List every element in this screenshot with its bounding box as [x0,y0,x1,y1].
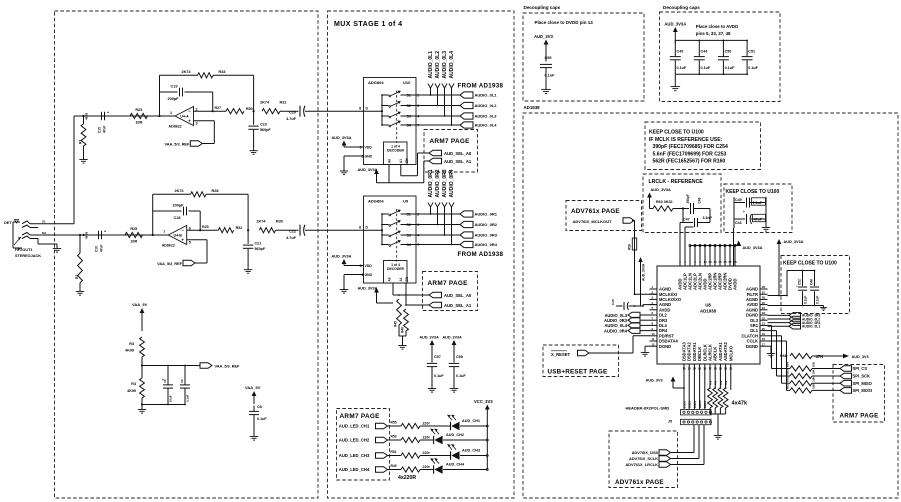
svg-text:ADV76IX_SCLK: ADV76IX_SCLK [629,456,658,461]
svg-text:SPI_MOSI: SPI_MOSI [853,388,872,393]
svg-text:37: 37 [728,260,732,264]
svg-text:ARM7 PAGE: ARM7 PAGE [428,280,469,287]
svg-text:220r: 220r [423,465,431,469]
svg-text:R49: R49 [391,464,397,468]
svg-text:DSD3: DSD3 [682,401,686,408]
svg-text:R58: R58 [628,244,632,250]
svg-text:VAA_5/3_REF: VAA_5/3_REF [215,365,241,369]
svg-text:10R: 10R [135,121,142,125]
svg-text:AUD_3V3A: AUD_3V3A [642,263,646,281]
svg-text:AUD_3V3A: AUD_3V3A [743,246,763,250]
svg-text:220r: 220r [423,422,431,426]
svg-text:pins 5, 33, 37, 48: pins 5, 33, 37, 48 [696,31,731,36]
svg-text:SPI_SCK: SPI_SCK [853,374,871,379]
svg-text:DECODER: DECODER [387,267,405,271]
svg-text:AUD_LED_CH3: AUD_LED_CH3 [339,453,370,458]
svg-text:15: 15 [698,367,702,371]
svg-text:DET: DET [4,221,12,225]
svg-text:VDD: VDD [365,264,373,268]
svg-text:20: 20 [762,327,766,331]
svg-text:18: 18 [762,337,766,341]
svg-text:0.1uF: 0.1uF [257,417,267,421]
svg-text:23: 23 [762,311,766,315]
svg-text:−: − [181,227,184,232]
svg-text:0.1uF: 0.1uF [456,374,466,378]
svg-text:C44: C44 [701,50,709,54]
svg-text:C20: C20 [289,111,296,115]
svg-text:200pF: 200pF [168,97,180,101]
svg-text:14: 14 [693,367,697,371]
svg-text:3.3nF: 3.3nF [703,216,713,220]
svg-text:R1: R1 [79,140,83,144]
svg-text:KEEP CLOSE TO U100: KEEP CLOSE TO U100 [783,261,837,267]
svg-text:AUDIO_0L4: AUDIO_0L4 [475,123,498,128]
svg-text:AUD_3V3A: AUD_3V3A [651,187,672,192]
svg-text:AUDIO_0R4: AUDIO_0R4 [475,242,498,247]
svg-text:AUD_3V3A: AUD_3V3A [420,336,440,340]
svg-text:VAA_5V: VAA_5V [132,302,148,307]
svg-text:C6: C6 [180,379,184,383]
svg-text:200pF: 200pF [173,204,185,208]
svg-text:28: 28 [762,285,766,289]
svg-text:HEADER-8X2POL-SMD: HEADER-8X2POL-SMD [626,405,670,410]
svg-text:R2: R2 [75,275,79,279]
svg-text:AUD_3V3: AUD_3V3 [534,34,554,39]
svg-text:10: 10 [703,260,707,264]
svg-text:ADG804: ADG804 [368,80,384,85]
svg-text:AUD_CH4: AUD_CH4 [446,463,465,467]
svg-text:C18: C18 [174,216,181,220]
svg-text:DGND: DGND [746,344,758,349]
svg-text:R52: R52 [236,226,243,230]
svg-text:+: + [107,111,109,115]
svg-text:SPI_MISO: SPI_MISO [853,381,873,386]
svg-text:AUDIO_0L4: AUDIO_0L4 [449,51,455,79]
svg-text:26: 26 [762,296,766,300]
svg-text:DECODER: DECODER [387,149,405,153]
svg-text:M1: M1 [42,231,46,235]
svg-text:AUDIO_0L3: AUDIO_0L3 [442,51,448,79]
svg-text:−: − [188,108,191,113]
svg-text:EN: EN [405,158,409,163]
svg-text:FROM AD1938: FROM AD1938 [458,83,504,90]
svg-text:C19: C19 [171,85,178,89]
svg-text:X_RESET: X_RESET [551,352,571,357]
svg-text:22: 22 [762,316,766,320]
svg-text:17: 17 [708,367,712,371]
svg-text:2K74: 2K74 [256,220,266,224]
svg-text:AUDIO_0R4: AUDIO_0R4 [604,328,628,333]
svg-text:2K74: 2K74 [181,70,191,74]
svg-text:AUDIO_0L3: AUDIO_0L3 [475,114,498,119]
svg-text:ADV761x PAGE: ADV761x PAGE [571,208,620,215]
svg-text:S1: S1 [407,93,411,97]
svg-text:AUD_3V3A: AUD_3V3A [358,287,378,291]
svg-text:A0: A0 [388,277,392,281]
svg-text:4x220R: 4x220R [398,475,416,481]
svg-text:R53: R53 [391,435,397,439]
svg-text:AUD_LED_CH2: AUD_LED_CH2 [339,438,370,443]
svg-text:A0: A0 [388,159,392,163]
svg-text:12: 12 [682,367,686,371]
svg-text:AUDIO_0R1: AUDIO_0R1 [475,212,498,217]
svg-text:R60 3K32: R60 3K32 [656,200,673,204]
svg-text:DGND: DGND [659,344,671,349]
svg-text:+: + [104,230,106,234]
svg-text:ARM7 PAGE: ARM7 PAGE [430,138,471,145]
svg-text:C55: C55 [545,56,552,60]
svg-text:U8: U8 [705,303,711,308]
svg-text:FROM AD1938: FROM AD1938 [458,251,504,258]
svg-text:VAA_5/3_REF: VAA_5/3_REF [157,262,183,266]
svg-text:20: 20 [724,367,728,371]
svg-text:+: + [188,118,191,123]
svg-text:Decoupling caps: Decoupling caps [524,5,561,10]
svg-text:2K74: 2K74 [174,189,184,193]
svg-text:4.7uF: 4.7uF [286,117,297,121]
svg-text:AD8622: AD8622 [162,244,175,248]
svg-text:AUD_3V3A: AUD_3V3A [443,336,463,340]
svg-text:MUX STAGE 1 of 4: MUX STAGE 1 of 4 [334,21,403,28]
svg-text:4K99: 4K99 [127,389,136,393]
svg-text:0.1uF: 0.1uF [701,66,711,70]
svg-text:DLRC: DLRC [703,401,707,408]
svg-text:C52: C52 [798,279,802,285]
svg-text:AUD_CH1: AUD_CH1 [462,419,480,423]
svg-text:33: 33 [708,260,712,264]
svg-text:VAA_5/3_REF: VAA_5/3_REF [164,142,190,146]
svg-text:ARM7 PAGE: ARM7 PAGE [340,413,381,420]
svg-text:AUD_3V3A: AUD_3V3A [664,22,686,27]
svg-text:AUDIO_0R2: AUDIO_0R2 [475,222,498,227]
svg-text:C45: C45 [611,299,615,305]
svg-text:4x47k: 4x47k [732,401,748,407]
svg-text:AUD_SEL_A1: AUD_SEL_A1 [444,303,472,308]
svg-text:4K99: 4K99 [125,349,134,353]
svg-text:R31: R31 [280,101,287,105]
svg-text:A1: A1 [399,159,403,163]
svg-text:AUDIO_0R4: AUDIO_0R4 [449,169,455,197]
svg-text:10K: 10K [812,362,816,367]
svg-text:C16: C16 [95,246,99,252]
svg-text:AUDIO_0L2: AUDIO_0L2 [475,103,498,108]
svg-text:2K74: 2K74 [260,101,270,105]
svg-text:R33: R33 [219,70,226,74]
svg-text:C21: C21 [255,242,262,246]
svg-text:47uF: 47uF [754,217,763,221]
svg-text:AUDIO_0R2: AUDIO_0R2 [435,169,441,197]
svg-text:0.1uF: 0.1uF [186,394,190,402]
svg-text:0.1uF: 0.1uF [725,66,735,70]
svg-text:35: 35 [718,260,722,264]
svg-text:U4-B: U4-B [174,233,183,237]
svg-text:ADV761x PAGE: ADV761x PAGE [615,479,664,486]
svg-text:3: 3 [196,122,198,126]
svg-text:GND: GND [365,273,373,277]
svg-text:EN: EN [405,276,409,281]
svg-text:AUDIO_0L1: AUDIO_0L1 [428,51,434,79]
svg-text:0.1uF: 0.1uF [804,296,808,304]
svg-text:R68: R68 [780,354,787,358]
svg-text:0.1uF: 0.1uF [816,296,820,304]
svg-text:AUD_3V3A: AUD_3V3A [784,240,804,244]
svg-text:C22: C22 [289,230,296,234]
svg-text:R23: R23 [135,108,142,112]
svg-text:R55: R55 [391,421,397,425]
svg-text:21: 21 [762,322,766,326]
svg-text:VAA_5V: VAA_5V [245,385,261,390]
svg-text:19: 19 [719,367,723,371]
svg-text:U4-A: U4-A [180,114,189,118]
svg-text:7: 7 [163,230,165,234]
svg-text:1: 1 [170,111,172,115]
svg-text:34: 34 [713,260,717,264]
svg-text:Decoupling caps: Decoupling caps [663,5,700,10]
svg-text:AUD_SEL_A1: AUD_SEL_A1 [444,159,472,164]
svg-text:DSD2: DSD2 [688,401,692,408]
svg-text:R29: R29 [202,225,209,229]
svg-text:ADV76IX_MCLKOUT: ADV76IX_MCLKOUT [573,219,612,224]
svg-text:AVDD: AVDD [733,278,738,290]
svg-text:S4: S4 [407,243,411,247]
svg-text:S3: S3 [407,233,411,237]
svg-text:AUD_CH3: AUD_CH3 [462,449,480,453]
svg-text:390pF (FEC1709685) FOR C254: 390pF (FEC1709685) FOR C254 [653,144,728,150]
svg-text:A1: A1 [399,277,403,281]
svg-text:AUD_LED_CH4: AUD_LED_CH4 [339,467,370,472]
svg-text:10K: 10K [812,384,816,389]
svg-text:AD1938: AD1938 [700,309,717,314]
svg-text:R50: R50 [246,107,253,111]
svg-text:AUDIO_0L1: AUDIO_0L1 [802,325,820,329]
svg-text:AUD_CH2: AUD_CH2 [446,433,464,437]
svg-text:AD8622: AD8622 [169,125,182,129]
svg-text:0.1uF: 0.1uF [434,374,444,378]
svg-text:USB+RESET PAGE: USB+RESET PAGE [548,369,608,376]
svg-text:36: 36 [723,260,727,264]
svg-text:47k: 47k [720,380,723,385]
svg-text:C46: C46 [698,197,702,203]
svg-text:8: 8 [359,226,361,230]
svg-text:S1: S1 [407,212,411,216]
svg-text:S4: S4 [407,123,411,127]
svg-text:562R (FEC1652567) FOR R160: 562R (FEC1652567) FOR R160 [653,159,726,165]
svg-text:48: 48 [733,260,737,264]
svg-text:10K: 10K [812,377,816,382]
svg-text:KEEP CLOSE TO U100: KEEP CLOSE TO U100 [726,189,780,195]
svg-text:19: 19 [762,332,766,336]
svg-text:4.7uF: 4.7uF [286,236,297,240]
svg-text:0.1uF: 0.1uF [753,201,763,205]
svg-text:AUD_3V3: AUD_3V3 [852,355,869,359]
svg-text:IF MCLK IS REFERENCE USE:: IF MCLK IS REFERENCE USE: [649,137,723,143]
svg-text:Place close to DVDD pin 13: Place close to DVDD pin 13 [535,20,594,25]
svg-text:17: 17 [762,342,766,346]
svg-text:R45: R45 [394,321,398,327]
svg-text:AUDIO_0L1: AUDIO_0L1 [475,93,498,98]
svg-text:AD1938: AD1938 [524,105,541,110]
svg-text:S3: S3 [407,114,411,118]
svg-text:AUD_3V3A: AUD_3V3A [332,136,352,140]
svg-text:16: 16 [703,367,707,371]
svg-text:C57: C57 [434,355,441,359]
svg-text:GND: GND [365,154,373,158]
svg-text:560pF: 560pF [260,128,271,132]
svg-text:STEREOJACK: STEREOJACK [15,254,41,258]
svg-text:+: + [181,237,184,242]
svg-text:11: 11 [652,337,655,341]
svg-text:10uF: 10uF [169,395,173,402]
svg-text:J5: J5 [668,420,672,424]
svg-text:AUD_3V3A: AUD_3V3A [332,255,352,259]
svg-text:AUD_LED_CH1: AUD_LED_CH1 [339,424,370,429]
svg-text:R28: R28 [212,189,219,193]
svg-text:R30: R30 [276,220,283,224]
svg-text:47k: 47k [725,380,728,385]
svg-text:C47: C47 [683,218,690,222]
svg-text:AUD_SEL_A0: AUD_SEL_A0 [444,151,472,156]
svg-text:C23: C23 [260,123,267,127]
svg-text:C58: C58 [456,355,463,359]
svg-text:C15: C15 [98,127,102,133]
svg-text:47k: 47k [715,380,718,385]
svg-text:R46: R46 [401,327,405,333]
svg-text:AUDIO_0R3: AUDIO_0R3 [442,169,448,197]
svg-text:KEEP CLOSE TO U100: KEEP CLOSE TO U100 [649,130,704,136]
svg-text:C50: C50 [725,50,732,54]
svg-text:C49: C49 [677,50,684,54]
svg-text:S2: S2 [407,223,411,227]
svg-text:MCLKO: MCLKO [728,345,733,361]
svg-text:R61: R61 [786,383,790,389]
svg-text:+: + [796,284,798,288]
svg-text:10R: 10R [130,240,137,244]
svg-text:47uF: 47uF [103,126,107,133]
svg-text:AUDIO_0R1: AUDIO_0R1 [428,169,434,197]
svg-text:HP2OUT1: HP2OUT1 [15,248,33,252]
svg-text:ADG804: ADG804 [368,199,384,204]
svg-text:21: 21 [729,367,733,371]
svg-text:49R9: 49R9 [85,112,89,120]
svg-text:47k: 47k [709,380,712,385]
svg-text:VDD: VDD [365,145,373,149]
svg-text:ARM7 PAGE: ARM7 PAGE [840,413,879,420]
svg-text:AUDIO_0R3: AUDIO_0R3 [475,233,498,238]
svg-text:C43: C43 [735,221,742,225]
svg-text:C51: C51 [748,50,755,54]
svg-text:560pF: 560pF [255,247,266,251]
svg-text:10K: 10K [812,369,816,374]
svg-text:AUD_3V3A: AUD_3V3A [358,168,378,172]
svg-text:SPI_CS: SPI_CS [853,366,868,371]
svg-text:+: + [162,378,164,382]
svg-text:5.6nF (FEC1709699) FOR C253: 5.6nF (FEC1709699) FOR C253 [653,151,727,157]
svg-text:10: 10 [652,332,656,336]
svg-text:12: 12 [652,342,656,346]
svg-text:S1: S1 [42,220,46,224]
svg-text:0.1uF: 0.1uF [677,66,687,70]
svg-text:DBCK: DBCK [698,400,702,408]
svg-text:Place close to AVDD: Place close to AVDD [696,24,738,29]
svg-text:24: 24 [762,306,766,310]
svg-text:AUD_SEL_A0: AUD_SEL_A0 [444,293,472,298]
svg-text:AUD_3V3: AUD_3V3 [646,379,663,383]
svg-text:R25: R25 [130,227,137,231]
svg-text:220r: 220r [423,451,431,455]
svg-text:13: 13 [688,367,692,371]
svg-text:C8: C8 [257,405,262,409]
svg-text:AUDIO_0L2: AUDIO_0L2 [435,51,441,79]
svg-text:LRCLK - REFERENCE: LRCLK - REFERENCE [649,179,704,185]
svg-text:27: 27 [762,290,766,294]
svg-text:+: + [743,210,745,214]
svg-text:R27: R27 [215,106,222,110]
svg-text:ADV761X_LRCLK: ADV761X_LRCLK [625,462,658,467]
svg-text:ADV76IX_I2S0: ADV76IX_I2S0 [632,450,658,455]
svg-text:DSD1: DSD1 [693,401,697,408]
svg-text:25: 25 [762,301,766,305]
svg-text:R51: R51 [391,450,397,454]
svg-text:R3: R3 [129,342,134,346]
svg-text:S2: S2 [407,104,411,108]
svg-text:47uF: 47uF [100,245,104,252]
svg-text:U10: U10 [403,80,411,85]
svg-text:220r: 220r [423,436,431,440]
svg-text:U9: U9 [403,199,409,204]
svg-text:5: 5 [189,241,191,245]
svg-text:VCC_3V3: VCC_3V3 [474,399,493,404]
svg-text:C49: C49 [735,198,742,202]
svg-text:390pF: 390pF [686,194,690,203]
svg-text:47K: 47K [816,354,825,359]
svg-text:C48: C48 [810,279,814,285]
svg-text:0.1uF: 0.1uF [748,66,758,70]
svg-text:8: 8 [359,107,361,111]
svg-text:18: 18 [714,367,718,371]
